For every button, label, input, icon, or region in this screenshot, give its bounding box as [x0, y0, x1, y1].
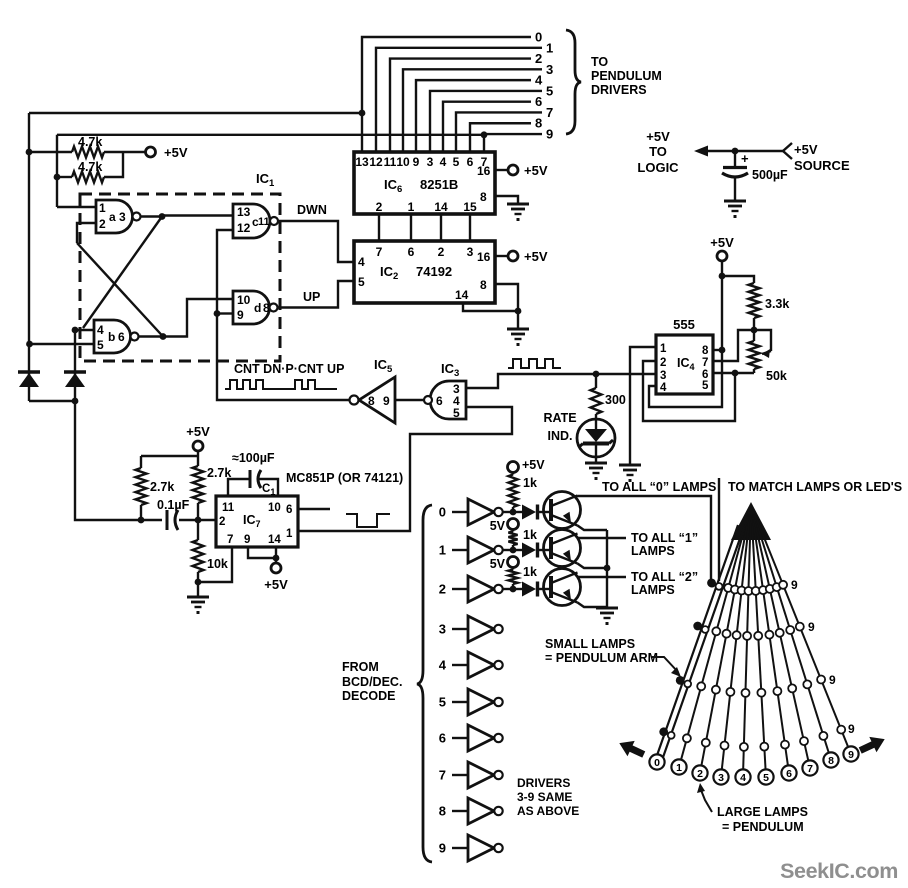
svg-text:12: 12	[237, 221, 251, 235]
wire bus line 1	[376, 48, 542, 152]
wire left vertical from B to R2/gate a	[56, 135, 58, 207]
svg-text:10: 10	[396, 155, 410, 169]
wire bus line 9	[484, 134, 542, 152]
svg-text:15: 15	[463, 200, 477, 214]
resistor 1k row 2	[512, 567, 514, 570]
svg-text:11: 11	[222, 502, 235, 514]
svg-text:7: 7	[546, 105, 553, 120]
wire lamp string 2	[702, 515, 750, 765]
svg-text:8: 8	[480, 190, 487, 204]
pot wiper	[754, 330, 771, 351]
svg-text:+5V: +5V	[164, 145, 188, 160]
svg-text:555: 555	[673, 317, 695, 332]
svg-text:3: 3	[660, 370, 666, 382]
wire to IC7 input	[75, 401, 162, 520]
svg-text:TO: TO	[649, 144, 667, 159]
wire UP: gate d out to IC2 pin 5	[278, 281, 355, 308]
op-amp U IC7 MC851P box	[216, 496, 298, 547]
potentiometer 50k	[753, 330, 755, 341]
svg-text:1: 1	[676, 762, 682, 774]
node one-shot pulse symbol	[346, 514, 390, 527]
capacitor C1 100uF	[228, 479, 249, 496]
svg-text:0: 0	[654, 757, 660, 769]
wire lamp string 6	[752, 515, 787, 765]
wire gate a output to gate c input 13	[141, 216, 234, 217]
wire diode bottoms joined	[29, 400, 75, 402]
svg-text:2.7k: 2.7k	[150, 480, 174, 494]
+5V terminal	[146, 147, 156, 157]
wire driver 1 output	[503, 549, 513, 551]
svg-text:9: 9	[244, 534, 250, 546]
svg-text:10k: 10k	[207, 557, 228, 571]
wire lamp string 1	[681, 515, 748, 759]
svg-text:5V: 5V	[490, 519, 506, 533]
svg-text:SeekIC.com: SeekIC.com	[780, 859, 898, 883]
svg-text:LAMPS: LAMPS	[631, 583, 675, 597]
svg-text:5: 5	[97, 338, 104, 352]
svg-text:13: 13	[237, 205, 251, 219]
svg-text:5: 5	[358, 275, 365, 289]
IC U2 74192	[354, 241, 495, 303]
svg-text:6: 6	[408, 245, 415, 259]
IC1 dashed outline	[80, 194, 280, 361]
svg-text:7: 7	[227, 534, 233, 546]
nand gate IC1c	[233, 204, 270, 238]
svg-text:+5V: +5V	[646, 129, 670, 144]
svg-text:6: 6	[786, 768, 792, 780]
wire 555 pin6 to pot bottom	[713, 372, 754, 374]
wire lamp string 7	[753, 515, 808, 760]
svg-text:4: 4	[97, 323, 104, 337]
wire +5V rail	[141, 455, 198, 457]
svg-text:2: 2	[535, 51, 542, 66]
svg-text:0.1µF: 0.1µF	[157, 498, 190, 512]
wire IC3 pin 3 to 555 pin 3	[466, 374, 656, 388]
svg-text:16: 16	[477, 164, 491, 178]
svg-text:= PENDULUM: = PENDULUM	[722, 820, 804, 834]
+5V terminal above 555	[717, 251, 727, 261]
svg-text:13: 13	[355, 155, 369, 169]
svg-text:8: 8	[702, 345, 709, 357]
wire emitters to ground bus	[578, 526, 608, 531]
svg-text:b: b	[108, 330, 115, 344]
svg-text:3: 3	[467, 245, 474, 259]
svg-text:1: 1	[286, 528, 293, 540]
wire bus line 7	[456, 112, 542, 152]
resistor 300	[595, 374, 597, 388]
svg-text:3-9 SAME: 3-9 SAME	[517, 790, 572, 804]
svg-text:2: 2	[99, 217, 106, 231]
wire gate a pin2 elbow	[77, 223, 96, 243]
wire bus line 3	[403, 69, 542, 152]
svg-text:= PENDULUM ARM: = PENDULUM ARM	[545, 651, 658, 665]
wire cross-couple A: gate a output to gate b input 4	[83, 217, 162, 329]
wire bus line 5	[430, 91, 542, 152]
ground below 10k	[187, 596, 209, 599]
lamp 5 (large)	[758, 769, 773, 784]
svg-text:8251B: 8251B	[420, 177, 458, 192]
svg-text:2: 2	[660, 357, 666, 369]
svg-text:+5V: +5V	[710, 235, 734, 250]
pendulum lamp fan	[731, 502, 771, 540]
brace to pendulum drivers	[566, 30, 581, 134]
wire gate b output	[139, 299, 234, 337]
svg-text:3: 3	[427, 155, 434, 169]
wire gate a pin1	[57, 206, 96, 208]
lamp 9 (large)	[843, 746, 858, 761]
wire inverter to IC3	[395, 399, 424, 401]
resistor 2.7k left	[140, 456, 142, 468]
svg-text:DECODE: DECODE	[342, 689, 395, 703]
wire IC2 pin8 and pin14 to ground	[495, 284, 518, 328]
lamp 7 (large)	[802, 760, 817, 775]
svg-text:4.7k: 4.7k	[78, 135, 102, 149]
svg-text:5: 5	[546, 83, 553, 98]
node +5V SOURCE chevron	[783, 143, 792, 159]
resistor R 4.7k lower	[57, 176, 72, 178]
svg-text:RATE: RATE	[543, 411, 576, 425]
svg-text:11: 11	[258, 216, 270, 228]
wire Q0 collector to lamps	[578, 496, 712, 584]
svg-text:3: 3	[119, 210, 126, 224]
svg-text:14: 14	[434, 200, 448, 214]
svg-text:+5V: +5V	[264, 577, 288, 592]
svg-text:0: 0	[535, 30, 542, 45]
svg-text:4: 4	[440, 155, 447, 169]
junction on line 0	[359, 110, 366, 117]
lamp 0 (large)	[649, 754, 664, 769]
wire cross-couple B: gate b output to gate a input	[77, 243, 163, 337]
wires IC6 to IC2	[378, 214, 380, 241]
wire lamp string 9	[755, 514, 848, 746]
svg-text:8: 8	[535, 116, 542, 131]
svg-text:2: 2	[376, 200, 383, 214]
svg-text:1k: 1k	[523, 565, 537, 579]
svg-text:12: 12	[369, 155, 383, 169]
svg-text:4: 4	[358, 255, 365, 269]
wire bus line 0	[362, 37, 531, 152]
svg-text:AS ABOVE: AS ABOVE	[517, 804, 579, 818]
svg-text:9: 9	[383, 394, 390, 408]
lamp 3 (large)	[713, 769, 728, 784]
svg-text:5: 5	[702, 380, 709, 392]
svg-text:9: 9	[791, 578, 798, 592]
svg-text:9: 9	[848, 749, 854, 761]
wire 555 pin8 to +5V	[713, 349, 722, 351]
svg-text:3: 3	[439, 622, 446, 637]
junction on line 9	[481, 131, 488, 138]
svg-text:+5V: +5V	[186, 424, 210, 439]
wire 10k to IC7 pin 7	[198, 547, 232, 582]
nand gate IC1a	[96, 200, 133, 233]
svg-text:4: 4	[660, 382, 667, 394]
pendulum arm (line 0, small lamps)	[657, 525, 738, 756]
supply terminal row 2	[508, 557, 519, 568]
svg-text:300: 300	[605, 393, 626, 407]
diode D2	[74, 330, 76, 401]
wire bus line 4	[416, 80, 531, 152]
wire 555 pin4 to +5V (inner U)	[649, 350, 722, 407]
nand gate IC1d	[233, 291, 270, 324]
svg-text:2: 2	[439, 582, 446, 597]
wire IC7 pin 6 stub	[298, 508, 330, 510]
IC U6 8251B	[354, 152, 495, 214]
svg-text:6: 6	[439, 731, 446, 746]
svg-text:CNT DN·P·CNT UP: CNT DN·P·CNT UP	[234, 362, 344, 376]
svg-text:+5V: +5V	[794, 142, 818, 157]
svg-text:+5V: +5V	[522, 458, 545, 472]
wire bus line 6	[443, 102, 531, 152]
svg-text:a: a	[109, 210, 116, 224]
brace FROM BCD/DEC. DECODE	[417, 505, 432, 862]
lamp 1 (large)	[671, 759, 686, 774]
svg-text:3: 3	[718, 772, 724, 784]
svg-text:7: 7	[439, 768, 446, 783]
svg-text:9: 9	[413, 155, 420, 169]
wire IC6 pin16 to +5V	[495, 169, 508, 171]
svg-text:LAMPS: LAMPS	[631, 544, 675, 558]
svg-text:2: 2	[697, 768, 703, 780]
svg-text:8: 8	[480, 278, 487, 292]
svg-text:6: 6	[118, 330, 125, 344]
resistor R 4.7k upper	[29, 151, 72, 153]
lamp 2 (large)	[692, 765, 707, 780]
svg-text:10: 10	[268, 502, 281, 514]
svg-text:14: 14	[268, 534, 281, 546]
svg-text:9: 9	[829, 673, 836, 687]
svg-text:1k: 1k	[523, 528, 537, 542]
wire IC6 pin8 to ground	[495, 196, 518, 203]
wire gate d pin 9 stub	[217, 312, 233, 314]
svg-text:2: 2	[219, 516, 225, 528]
svg-text:500µF: 500µF	[752, 168, 788, 182]
svg-text:+: +	[741, 151, 749, 166]
svg-text:9: 9	[808, 620, 815, 634]
arrow swing right	[857, 731, 889, 758]
wire DWN: gate c out to IC2 pin 4	[278, 221, 354, 262]
svg-text:5: 5	[453, 155, 460, 169]
svg-text:3: 3	[546, 62, 553, 77]
svg-text:LOGIC: LOGIC	[637, 160, 679, 175]
svg-text:LARGE LAMPS: LARGE LAMPS	[717, 805, 808, 819]
resistor 3.3k	[722, 276, 754, 283]
svg-text:+5V: +5V	[524, 249, 548, 264]
wire 555 pin7 to pot top	[713, 330, 754, 361]
svg-text:7: 7	[702, 357, 708, 369]
svg-text:DRIVERS: DRIVERS	[591, 83, 647, 97]
svg-text:9: 9	[546, 127, 553, 142]
wire driver 2 output	[503, 588, 513, 590]
wire lamp string 8	[754, 515, 829, 752]
wire IC7 pins 9,14 to +5V	[248, 547, 276, 558]
svg-text:7: 7	[807, 763, 813, 775]
svg-text:1: 1	[408, 200, 415, 214]
svg-text:7: 7	[376, 245, 383, 259]
wire bus line 8	[470, 123, 531, 152]
svg-text:10: 10	[237, 293, 251, 307]
svg-text:4: 4	[535, 73, 543, 88]
svg-text:DWN: DWN	[297, 203, 327, 217]
svg-text:6: 6	[286, 504, 292, 516]
svg-text:SOURCE: SOURCE	[794, 158, 850, 173]
wire lamp string 4	[743, 515, 751, 769]
svg-text:5: 5	[439, 695, 446, 710]
svg-text:PENDULUM: PENDULUM	[591, 69, 662, 83]
wire gate c pin 12 / gate d pin 9 / inverter line	[217, 230, 350, 400]
wire IC2 pin16 to +5V	[495, 255, 508, 257]
svg-text:4: 4	[439, 658, 447, 673]
svg-text:+5V: +5V	[524, 163, 548, 178]
svg-text:1: 1	[99, 201, 106, 215]
svg-text:9: 9	[848, 722, 855, 736]
svg-text:8: 8	[368, 394, 375, 408]
wire gate b pin 5 stub	[29, 343, 94, 345]
svg-text:≈100µF: ≈100µF	[232, 451, 275, 465]
svg-text:50k: 50k	[766, 369, 787, 383]
supply terminal row 0	[508, 462, 519, 473]
wire gate b pin 4 stub	[75, 329, 94, 331]
svg-text:8: 8	[828, 755, 834, 767]
svg-text:1: 1	[546, 40, 553, 55]
diode row 2	[513, 588, 522, 590]
svg-text:11: 11	[384, 155, 397, 169]
resistor 10k	[197, 520, 199, 540]
wire lamp string 3	[722, 515, 750, 769]
svg-text:14: 14	[455, 288, 469, 302]
svg-text:SMALL LAMPS: SMALL LAMPS	[545, 637, 635, 651]
diode row 0	[513, 511, 522, 513]
svg-text:2: 2	[438, 245, 445, 259]
arrow swing left	[616, 735, 648, 762]
resistor 1k row 0	[512, 472, 514, 475]
svg-text:9: 9	[439, 841, 446, 856]
svg-text:3.3k: 3.3k	[765, 297, 789, 311]
svg-text:6: 6	[535, 94, 542, 109]
transistor Q1	[544, 530, 581, 567]
svg-text:5: 5	[763, 772, 769, 784]
supply terminal row 1	[508, 519, 519, 530]
svg-text:TO: TO	[591, 55, 608, 69]
svg-text:74192: 74192	[416, 264, 452, 279]
svg-text:1: 1	[660, 343, 667, 355]
svg-text:TO ALL “0” LAMPS: TO ALL “0” LAMPS	[602, 480, 716, 494]
wire bus line 2	[390, 59, 531, 152]
svg-text:4.7k: 4.7k	[78, 160, 102, 174]
resistor 1k row 1	[512, 529, 514, 532]
nand gate IC1b	[94, 320, 131, 353]
node TO MATCH LAMPS label divider	[718, 478, 720, 581]
svg-text:DRIVERS: DRIVERS	[517, 776, 570, 790]
svg-text:1: 1	[439, 543, 446, 558]
wire Q2 collector stub	[578, 576, 626, 578]
svg-text:8: 8	[263, 301, 270, 315]
diode row 1	[513, 549, 522, 551]
svg-text:5V: 5V	[490, 557, 506, 571]
wire driver 0 output	[503, 511, 513, 513]
wire lamp string 5	[752, 515, 766, 769]
svg-text:6: 6	[467, 155, 474, 169]
svg-text:4: 4	[740, 772, 746, 784]
svg-text:BCD/DEC.: BCD/DEC.	[342, 675, 402, 689]
svg-text:16: 16	[477, 250, 491, 264]
svg-text:FROM: FROM	[342, 660, 379, 674]
svg-text:UP: UP	[303, 290, 320, 304]
svg-text:9: 9	[237, 308, 244, 322]
wire 555 pin2 to pin6 (outer U)	[643, 361, 735, 421]
transistor Q0	[544, 492, 581, 529]
wire B: to IC6 pin 7 line	[57, 134, 484, 136]
svg-text:5: 5	[453, 406, 460, 420]
lamp 4 (large)	[735, 769, 750, 784]
wire left vertical from A	[28, 113, 30, 372]
svg-text:1k: 1k	[523, 476, 537, 490]
svg-text:d: d	[254, 301, 261, 315]
diode D1	[28, 372, 30, 401]
svg-text:TO ALL “1”: TO ALL “1”	[631, 531, 698, 545]
wire IC7 pin 1 to IC3 inputs 4,5	[298, 407, 512, 531]
svg-text:6: 6	[436, 394, 443, 408]
svg-text:0: 0	[439, 505, 446, 520]
wire Q1 collector stub	[578, 537, 626, 539]
svg-text:8: 8	[439, 804, 446, 819]
lamp 6 (large)	[781, 765, 796, 780]
lamp 8 (large)	[823, 752, 838, 767]
svg-text:TO ALL “2”: TO ALL “2”	[631, 570, 698, 584]
svg-text:IND.: IND.	[548, 429, 573, 443]
wire 555 pin1 to ground	[630, 347, 656, 464]
svg-text:MC851P (OR 74121): MC851P (OR 74121)	[286, 471, 403, 485]
resistor 2.7k right	[197, 456, 199, 466]
wire A: top-left feedback to IC6 pin 13 line	[29, 112, 362, 114]
svg-text:TO MATCH LAMPS OR LED'S: TO MATCH LAMPS OR LED'S	[728, 480, 902, 494]
transistor Q2	[544, 569, 581, 606]
node square wave symbol	[508, 359, 561, 368]
